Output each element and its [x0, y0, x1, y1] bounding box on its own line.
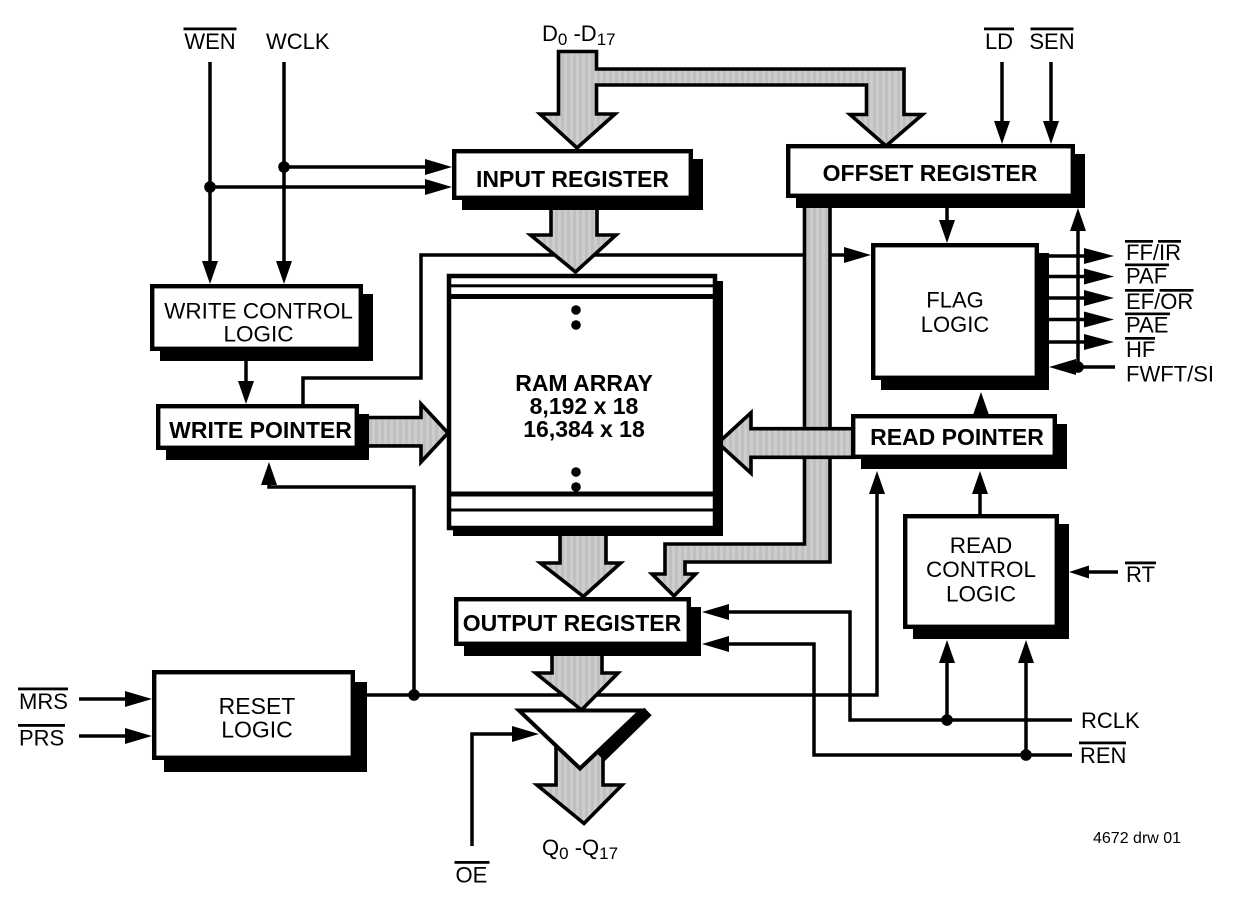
svg-text:16,384 x 18: 16,384 x 18 [523, 416, 645, 442]
svg-text:LOGIC: LOGIC [221, 717, 293, 743]
wire READ CONTROL LOGIC to READ POINTER [972, 471, 988, 514]
wire flag output PAE [1041, 312, 1114, 328]
block WRITE CONTROL LOGIC [152, 286, 373, 361]
junction dot RCLK [941, 714, 953, 726]
label LD [984, 28, 1014, 55]
svg-text:LOGIC: LOGIC [223, 322, 293, 347]
wire PRS input [79, 728, 152, 744]
wire WRITE POINTER to FLAG LOGIC [303, 247, 871, 404]
block RAM ARRAY [449, 276, 723, 536]
wire flag output FF/IR [1041, 248, 1114, 264]
label FWFT/SI [1126, 362, 1214, 387]
svg-text:WCLK: WCLK [266, 29, 330, 54]
wire SEN input [1043, 62, 1059, 144]
svg-text:LOGIC: LOGIC [946, 582, 1016, 607]
wire FWFT/SI input [1049, 359, 1115, 375]
junction dot REN [1020, 749, 1032, 761]
label FF/IR [1125, 240, 1181, 265]
wire WRITE CONTROL LOGIC to WRITE POINTER [238, 361, 254, 404]
label PRS [18, 724, 65, 751]
wire REN to READ CONTROL LOGIC [1018, 640, 1034, 755]
wire WEN input [202, 62, 218, 284]
ellipsis dots RAM bottom [571, 467, 581, 492]
wire WCLK input [276, 62, 292, 284]
label WCLK [266, 29, 330, 54]
junction dot WCLK [278, 161, 290, 173]
svg-text:FLAG: FLAG [926, 288, 983, 313]
label SEN [1029, 28, 1074, 55]
label PAE [1125, 313, 1170, 338]
wire RT input [1069, 566, 1118, 579]
bus arrow WRITE POINTER to RAM ARRAY [361, 404, 448, 462]
svg-text:RCLK: RCLK [1081, 708, 1140, 733]
block WRITE POINTER [158, 406, 369, 460]
block READ CONTROL LOGIC [905, 516, 1069, 639]
svg-text:REN: REN [1080, 743, 1126, 768]
svg-text:EF/OR: EF/OR [1126, 289, 1193, 314]
svg-text:OUTPUT REGISTER: OUTPUT REGISTER [463, 610, 682, 636]
wire WEN to INPUT REGISTER [210, 179, 452, 195]
wire flag output EF/OR [1041, 290, 1114, 306]
block READ POINTER [853, 416, 1067, 469]
label MRS [18, 688, 68, 715]
svg-text:OFFSET REGISTER: OFFSET REGISTER [823, 160, 1038, 186]
bus arrow OFFSET REGISTER to OUTPUT REGISTER [652, 200, 830, 596]
block FLAG LOGIC [873, 245, 1049, 390]
svg-text:SEN: SEN [1029, 29, 1074, 54]
svg-text:MRS: MRS [19, 689, 68, 714]
label EF/OR [1125, 289, 1194, 314]
output buffer shadow [601, 712, 648, 758]
junction dot WEN [204, 181, 216, 193]
svg-text:LD: LD [985, 29, 1013, 54]
svg-text:FWFT/SI: FWFT/SI [1126, 362, 1214, 387]
junction dot RESET line [408, 689, 420, 701]
svg-text:READ POINTER: READ POINTER [870, 424, 1044, 450]
svg-text:WEN: WEN [184, 29, 235, 54]
block OUTPUT REGISTER [456, 599, 701, 656]
wire RCLK to READ CONTROL LOGIC [939, 640, 955, 720]
wire READ POINTER to FLAG LOGIC [973, 392, 989, 415]
svg-text:INPUT REGISTER: INPUT REGISTER [476, 166, 669, 192]
bus arrow RAM ARRAY to OUTPUT REGISTER [540, 532, 620, 597]
junction dot FWFT/SI [1072, 361, 1084, 373]
svg-text:FF/IR: FF/IR [1126, 240, 1181, 265]
block RESET LOGIC [154, 672, 367, 772]
wire WCLK to INPUT REGISTER [284, 159, 452, 175]
svg-text:PAE: PAE [1126, 313, 1168, 338]
bus arrow OUTPUT REGISTER to output buffer [536, 650, 618, 710]
svg-text:LOGIC: LOGIC [921, 312, 990, 337]
wire MRS input [79, 691, 152, 707]
svg-text:HF: HF [1126, 337, 1155, 362]
bus arrow output buffer to Q0-Q17 [537, 712, 622, 824]
svg-text:WRITE POINTER: WRITE POINTER [169, 417, 352, 443]
ellipsis dots RAM top [571, 305, 581, 330]
svg-text:RT: RT [1126, 562, 1155, 587]
block OFFSET REGISTER [788, 146, 1085, 208]
wire LD input [994, 62, 1010, 144]
svg-text:READ: READ [950, 533, 1013, 558]
wire flag output HF [1041, 334, 1114, 350]
block INPUT REGISTER [454, 151, 703, 210]
wire RESET line to WRITE POINTER [261, 462, 414, 695]
bus arrow D0-D17 to INPUT REGISTER and OFFSET REGISTER [540, 52, 923, 149]
label PAF [1125, 264, 1169, 289]
svg-text:4672 drw 01: 4672 drw 01 [1093, 830, 1181, 847]
bus arrow INPUT REGISTER to RAM ARRAY [531, 203, 617, 272]
label HF [1125, 337, 1155, 362]
label OE [455, 861, 490, 888]
svg-text:WRITE CONTROL: WRITE CONTROL [164, 299, 353, 324]
svg-text:PAF: PAF [1126, 264, 1167, 289]
output buffer triangle [519, 711, 641, 769]
wire REN [702, 636, 1072, 755]
bus arrow READ POINTER to RAM ARRAY [718, 413, 853, 474]
svg-text:PRS: PRS [19, 726, 64, 751]
wire RCLK [702, 604, 1072, 720]
label WEN [184, 28, 237, 55]
wire FLAG LOGIC to OFFSET REGISTER [1070, 208, 1086, 367]
svg-text:CONTROL: CONTROL [926, 557, 1036, 582]
svg-text:RESET: RESET [219, 693, 296, 719]
wire RESET LOGIC output to READ POINTER [357, 471, 885, 695]
wire flag output PAF [1041, 269, 1114, 285]
wire OE input [472, 726, 539, 846]
wire OFFSET REGISTER to FLAG LOGIC [939, 208, 955, 243]
label RT [1125, 562, 1156, 588]
label REN [1079, 742, 1126, 769]
svg-text:OE: OE [456, 863, 488, 888]
